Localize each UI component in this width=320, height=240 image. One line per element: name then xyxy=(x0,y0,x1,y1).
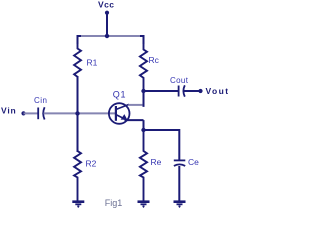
capacitor Ce xyxy=(174,160,186,166)
node: Vcc junction dot xyxy=(105,34,109,38)
wire: Cout to Vout xyxy=(184,90,200,92)
svg-text:Re: Re xyxy=(151,157,162,167)
circuit schematic: common-emitter BJT amplifier Fig1 xyxy=(0,0,238,212)
resistor Rc xyxy=(140,42,147,92)
resistor R2 xyxy=(74,146,81,201)
svg-text:R1: R1 xyxy=(87,58,98,68)
node: base junction dot xyxy=(75,111,79,115)
wire: emitter horizontal from Q1 xyxy=(125,119,144,121)
top rail wire xyxy=(80,35,141,37)
svg-text:Fig1: Fig1 xyxy=(105,198,123,208)
ground (under R2) xyxy=(72,202,84,208)
wire: Ce branch vertical top xyxy=(178,129,180,160)
wire: Vin to Cin xyxy=(24,112,39,114)
ground (under Ce) xyxy=(174,202,186,208)
wire: emitter vertical to emitter node xyxy=(143,120,145,130)
svg-text:Vin: Vin xyxy=(1,105,16,115)
node: emitter junction dot xyxy=(141,128,145,132)
node: collector junction dot xyxy=(141,89,145,93)
svg-text:R2: R2 xyxy=(86,158,97,168)
emitter arrowhead xyxy=(121,115,127,120)
wire: top-left corner elbow xyxy=(78,36,82,44)
Vcc stem wire xyxy=(106,13,108,36)
svg-text:Vcc: Vcc xyxy=(98,0,114,10)
capacitor Cin xyxy=(38,107,44,119)
wire: collector vertical segment xyxy=(143,91,144,106)
Vout terminal dot xyxy=(198,89,202,93)
svg-text:Ce: Ce xyxy=(188,157,199,167)
wire: collector node to Cout xyxy=(144,90,179,92)
wire: collector horizontal to Q1 xyxy=(128,104,142,106)
wire: emitter node to Ce branch xyxy=(144,129,180,131)
capacitor Cout xyxy=(179,85,185,96)
wire: Cin to base of Q1 xyxy=(44,112,116,114)
resistor R1 xyxy=(74,42,81,86)
wire: top-right corner elbow xyxy=(140,36,144,44)
wire: Ce branch vertical bottom xyxy=(178,166,180,201)
svg-text:Q1: Q1 xyxy=(113,89,127,99)
svg-text:Cout: Cout xyxy=(170,76,189,85)
wire: left branch R1 bottom to base node to R2 top xyxy=(77,76,79,152)
Vin terminal dot xyxy=(21,111,25,115)
Vcc terminal dot xyxy=(105,11,109,15)
resistor Re xyxy=(140,129,147,201)
svg-text:Rc: Rc xyxy=(149,55,160,65)
svg-text:Cin: Cin xyxy=(34,96,48,105)
svg-text:Vout: Vout xyxy=(206,86,230,96)
transistor Q1 (NPN) xyxy=(109,103,130,124)
ground (under Re) xyxy=(138,202,150,208)
